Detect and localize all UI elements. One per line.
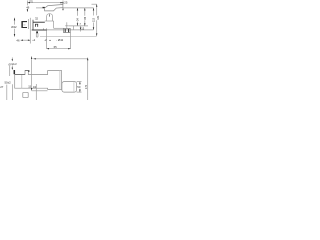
svg-text:113: 113 (93, 17, 96, 22)
svg-text:131: 131 (97, 15, 100, 20)
svg-text:46: 46 (26, 6, 30, 10)
svg-text:34: 34 (33, 85, 37, 89)
svg-text:32: 32 (35, 16, 39, 20)
svg-text:- Ø42: - Ø42 (56, 38, 63, 42)
svg-text:65: 65 (54, 45, 58, 49)
svg-text:46: 46 (16, 38, 20, 42)
svg-text:50: 50 (77, 85, 81, 89)
svg-text:50±2: 50±2 (5, 81, 12, 85)
svg-text:170: 170 (29, 0, 34, 3)
svg-text:170: 170 (85, 84, 88, 89)
svg-text:Ø42: Ø42 (11, 25, 17, 29)
svg-text:25: 25 (64, 0, 68, 4)
svg-text:27: 27 (0, 85, 4, 89)
svg-text:G1/2: G1/2 (11, 63, 17, 66)
